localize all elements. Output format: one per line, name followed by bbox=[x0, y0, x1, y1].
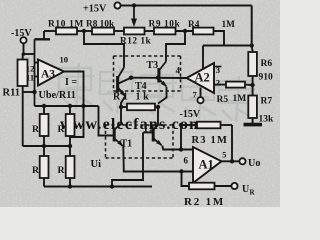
svg-text:T3: T3 bbox=[147, 60, 159, 71]
resistor R12 1k (pot) bbox=[124, 28, 145, 35]
svg-text:R8 10k: R8 10k bbox=[86, 20, 115, 30]
junction T4 emitter node bbox=[119, 105, 123, 109]
wire A2 pin2 to R5 bbox=[214, 84, 226, 86]
junction rail/R6 bbox=[250, 43, 254, 47]
wire col1 to bottom rail bbox=[43, 178, 45, 187]
svg-text:10: 10 bbox=[60, 55, 69, 65]
wire T1 collector to emitter node bbox=[120, 107, 122, 124]
wire +15V rail top bbox=[121, 5, 252, 7]
wire right rail down to R6 node bbox=[251, 6, 253, 46]
wire col2 upper-lower bbox=[69, 136, 71, 156]
wire R3 riser bbox=[180, 125, 182, 150]
terminal UR bbox=[231, 183, 237, 189]
wire col2 to bottom rail bbox=[69, 178, 71, 187]
resistor R1 1k bbox=[121, 106, 127, 108]
resistor R upper-right bbox=[69, 106, 71, 114]
wire chain segment E bbox=[176, 30, 194, 32]
resistor R10 1M bbox=[56, 28, 77, 35]
wire chain segment B bbox=[77, 30, 92, 32]
wire R11 bottom jog bbox=[23, 91, 35, 93]
op-amp A2 bbox=[187, 63, 215, 93]
wire network middle rail bbox=[23, 145, 70, 147]
junction A1 output bbox=[230, 159, 234, 163]
svg-text:R1 1k: R1 1k bbox=[113, 92, 151, 103]
wire A3 output lower jog bbox=[70, 106, 84, 137]
dashed box T3 T4 bbox=[114, 55, 181, 57]
wire R5 to R6/R7 node bbox=[245, 84, 253, 86]
terminal A2 -15V bbox=[197, 97, 203, 103]
resistor R5 1M bbox=[226, 82, 245, 88]
wire R4 to +15V node bbox=[214, 31, 225, 46]
svg-text:Uo: Uo bbox=[248, 158, 260, 169]
wire A2 pin3 stub bbox=[214, 66, 222, 68]
svg-text:5: 5 bbox=[222, 151, 226, 160]
svg-text:T4: T4 bbox=[135, 81, 147, 92]
wire R2 drop bbox=[182, 172, 190, 187]
wire +15V tap with arrow into R12 wiper bbox=[133, 6, 135, 21]
svg-text:A2: A2 bbox=[195, 71, 210, 85]
transistor T1 bbox=[113, 128, 116, 142]
wire R10/R8 junction down to T4 collector bbox=[84, 31, 124, 68]
svg-text:R: R bbox=[32, 124, 40, 135]
wire T1 base feed bbox=[99, 106, 114, 136]
resistor R6 910 bbox=[248, 52, 257, 76]
resistor R8 10k bbox=[92, 28, 114, 35]
ground bbox=[244, 123, 263, 127]
junction top rail A3 output bbox=[81, 104, 85, 108]
svg-text:+15V: +15V bbox=[83, 4, 107, 15]
resistor R11 bbox=[18, 60, 28, 87]
wire riser to A2 pin3 bbox=[202, 46, 204, 69]
svg-text:R4: R4 bbox=[188, 20, 200, 30]
svg-text:11: 11 bbox=[26, 73, 34, 83]
resistor R upper-left bbox=[43, 106, 45, 114]
wire A3 pin11 stub bbox=[35, 76, 39, 78]
op-amp A1 bbox=[193, 147, 222, 183]
wire R7 top bbox=[252, 85, 254, 96]
svg-text:Ube/R11: Ube/R11 bbox=[39, 90, 76, 101]
junction R6/R5/R7 bbox=[250, 83, 254, 87]
wire T2 base return bbox=[112, 133, 143, 187]
svg-text:R: R bbox=[58, 124, 66, 135]
wire A3 pin12 stub bbox=[35, 62, 39, 64]
svg-text:7: 7 bbox=[193, 90, 198, 100]
svg-text:T1: T1 bbox=[121, 139, 133, 150]
junction bottom rail T2 base return bbox=[110, 184, 114, 188]
junction R3 left bbox=[179, 123, 183, 127]
wire A2 pin7 stub bbox=[200, 88, 202, 98]
svg-text:910: 910 bbox=[259, 73, 274, 83]
wire chain left end bbox=[43, 31, 45, 39]
junction T4 base bbox=[129, 76, 133, 80]
resistor R7 13k bbox=[248, 96, 257, 119]
wire A1 output bbox=[222, 160, 240, 162]
dashed box T1 T2 bbox=[106, 124, 174, 126]
junction bottom rail col2 bbox=[68, 184, 72, 188]
svg-text:2: 2 bbox=[216, 78, 220, 88]
wire R6 bottom to node bbox=[252, 76, 254, 85]
svg-text:R7: R7 bbox=[261, 97, 273, 107]
junction T3 base bbox=[156, 76, 160, 80]
wire common base / A2 output bbox=[131, 77, 187, 79]
wire R11 bottom bbox=[22, 86, 24, 146]
wire col1 upper-lower bbox=[43, 136, 45, 156]
resistor R3 1M bbox=[181, 124, 197, 126]
junction R10/R8 bbox=[82, 29, 86, 33]
svg-text:Ui: Ui bbox=[91, 159, 102, 170]
junction R9/R4 bbox=[183, 29, 187, 33]
svg-text:R11: R11 bbox=[3, 88, 21, 99]
svg-text:R: R bbox=[32, 165, 40, 176]
junction on +15V rail bbox=[132, 3, 136, 7]
svg-text:I =: I = bbox=[65, 77, 77, 88]
svg-text:R5: R5 bbox=[217, 95, 229, 105]
wire R3 to output bbox=[231, 125, 233, 161]
wire network top rail bbox=[35, 105, 99, 107]
wire chain segment D bbox=[145, 30, 155, 32]
resistor R9 10k bbox=[154, 28, 176, 35]
wire A3 input rail vertical bbox=[34, 39, 36, 106]
junction T3 emitter node bbox=[156, 105, 160, 109]
+15V terminal bbox=[114, 2, 120, 8]
resistor R4 1M bbox=[193, 28, 214, 35]
transistor T3 bbox=[157, 68, 160, 83]
op-amp A3 bbox=[38, 60, 64, 86]
wire T1 emitter down and right bbox=[123, 146, 193, 172]
junction R11/input rail bbox=[32, 90, 36, 94]
wire -15V node to A3 input rail bbox=[24, 53, 35, 55]
terminal Uo bbox=[239, 158, 245, 164]
svg-text:R: R bbox=[58, 165, 66, 176]
wire -15V to R11 bbox=[22, 43, 25, 59]
wire bottom rail bbox=[44, 186, 152, 188]
junction top rail col2 bbox=[68, 104, 72, 108]
junction middle rail col1 bbox=[42, 144, 46, 148]
svg-text:R2 1M: R2 1M bbox=[184, 196, 225, 207]
svg-text:R9 10k: R9 10k bbox=[149, 20, 181, 30]
junction middle rail col2 bbox=[68, 144, 72, 148]
wire R7 bottom to ground bbox=[252, 118, 254, 123]
svg-text:1M: 1M bbox=[233, 94, 247, 104]
resistor R2 1M bbox=[189, 183, 215, 190]
wire R6 top bbox=[251, 46, 254, 53]
resistor R lower-left bbox=[40, 156, 49, 178]
svg-text:-15V: -15V bbox=[180, 109, 201, 120]
svg-text:1M: 1M bbox=[222, 20, 236, 30]
resistor R lower-right bbox=[66, 156, 75, 178]
wire T3 emitter down bbox=[158, 87, 167, 104]
wire chain segment A bbox=[44, 30, 56, 32]
wire T2 collector to emitter node bbox=[157, 107, 159, 125]
svg-text:R10 1M: R10 1M bbox=[48, 20, 84, 30]
svg-text:R3 1M: R3 1M bbox=[192, 135, 229, 146]
svg-text:6: 6 bbox=[184, 156, 189, 166]
svg-text:U: U bbox=[242, 184, 249, 195]
svg-text:A1: A1 bbox=[199, 158, 214, 172]
svg-text:R6: R6 bbox=[261, 59, 273, 69]
transistor T4 bbox=[116, 76, 119, 93]
junction A1 lower input / R2 bbox=[179, 169, 183, 173]
junction A1 upper input / R3 bbox=[179, 147, 183, 151]
wire node row y=46 bbox=[203, 45, 252, 47]
wire T2 emitter to A1 input bbox=[162, 146, 193, 150]
svg-text:A3: A3 bbox=[41, 69, 55, 81]
transistor T2 bbox=[152, 128, 155, 142]
wire A3 output bbox=[64, 72, 84, 107]
wire T4 emitter down bbox=[121, 97, 125, 105]
wire emitter node left stub bbox=[120, 104, 122, 107]
wire R9/R4 junction down to T3 collector bbox=[166, 31, 185, 62]
wire chain segment C bbox=[114, 30, 124, 32]
wire R2 to UR bbox=[215, 185, 232, 187]
junction top rail col1 bbox=[42, 104, 46, 108]
